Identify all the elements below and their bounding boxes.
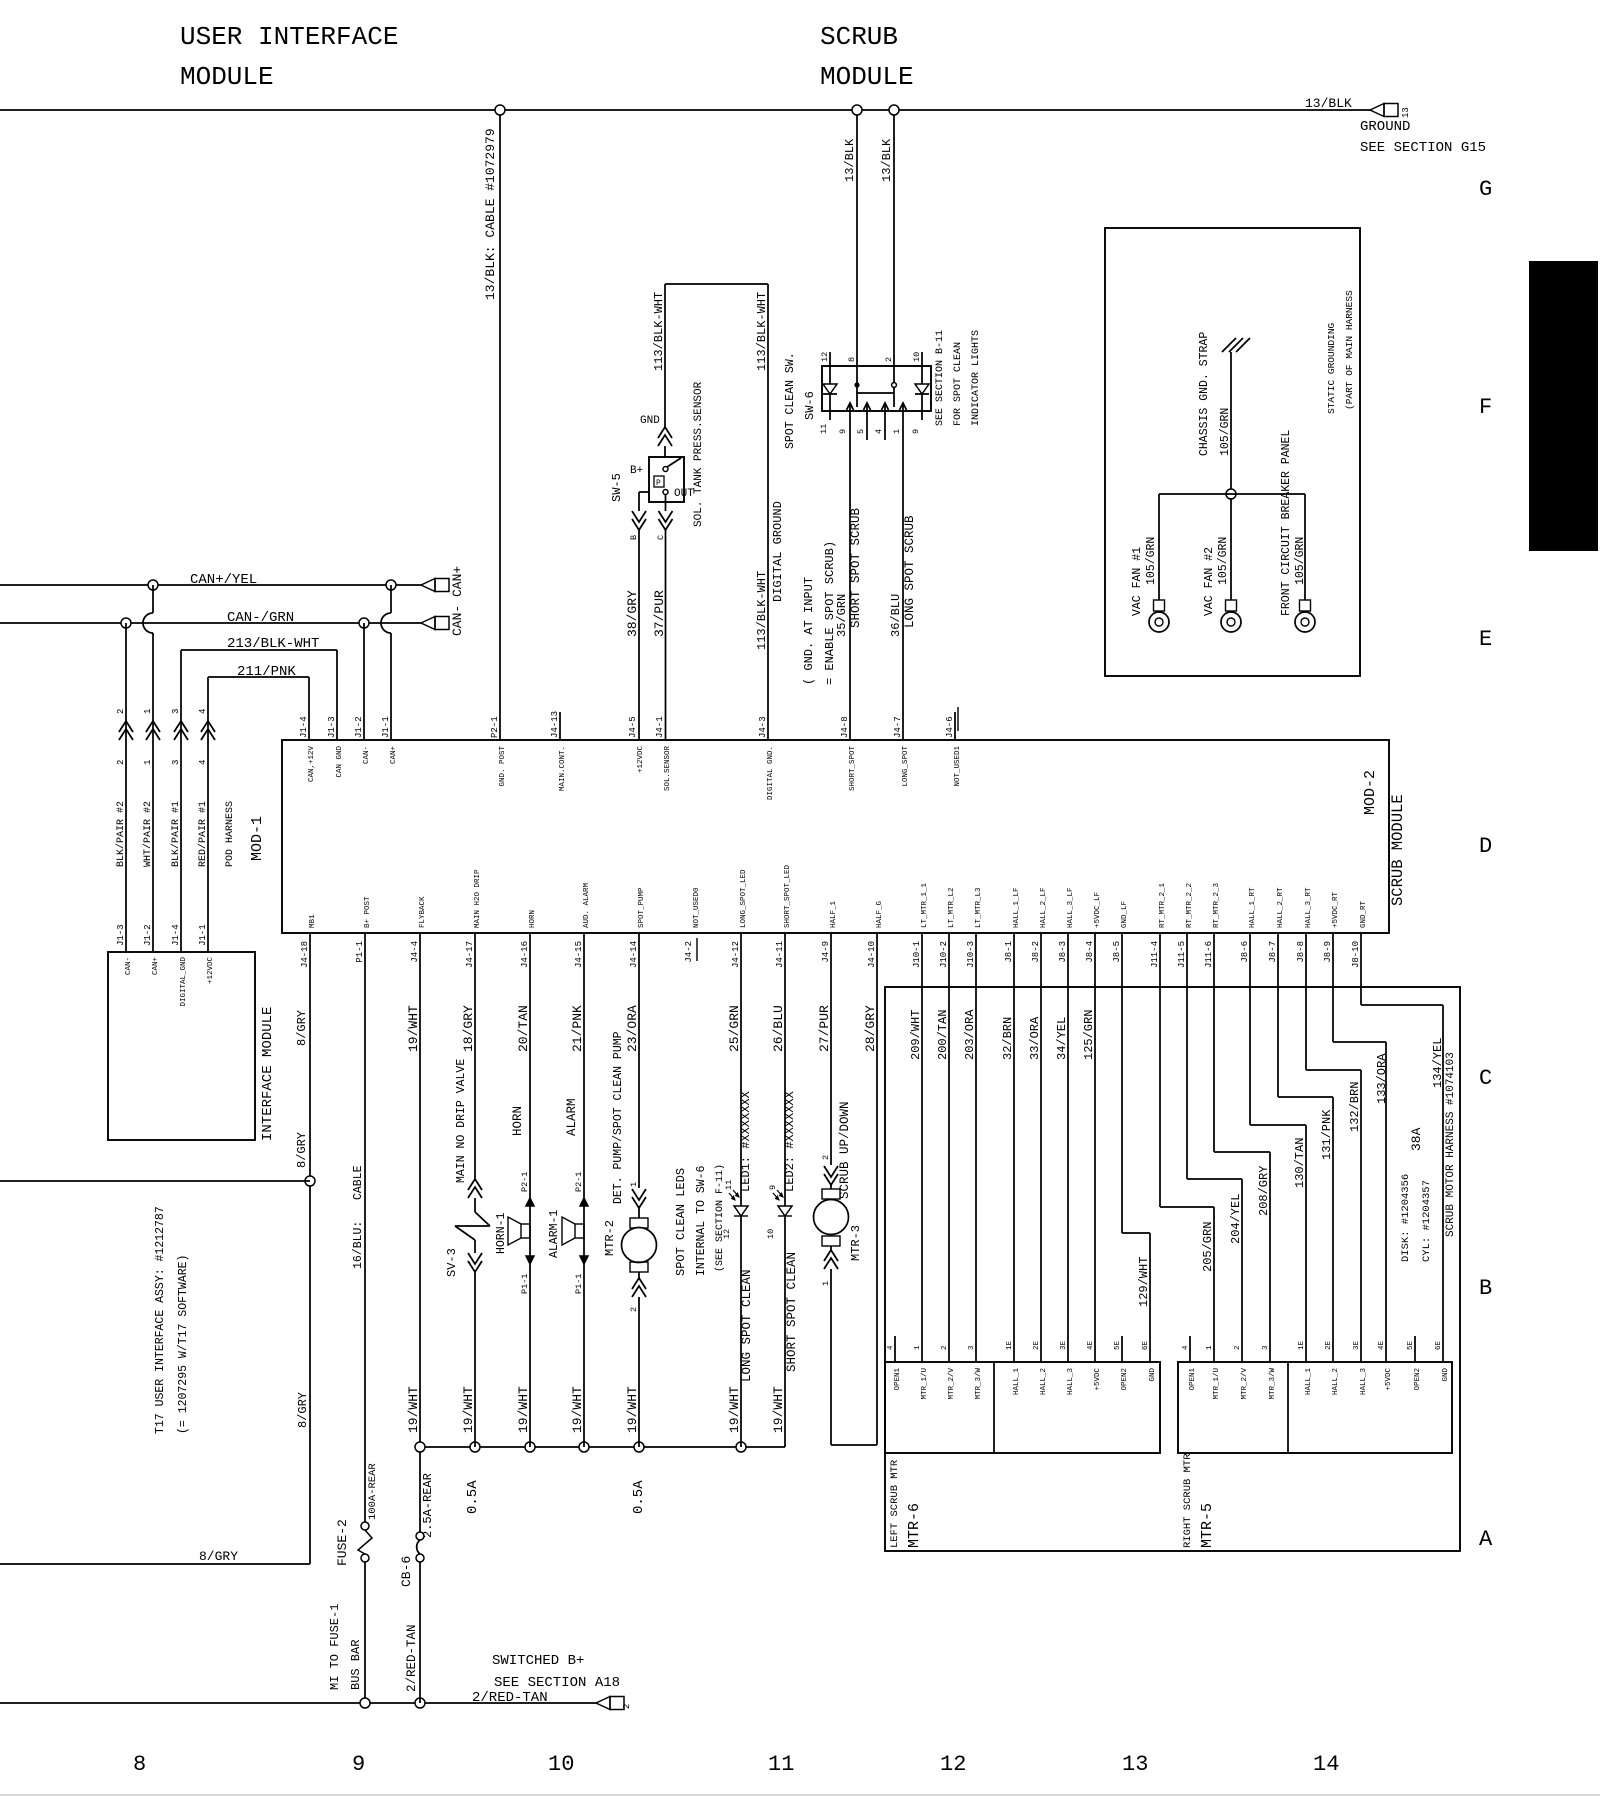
- svg-text:2/RED-TAN: 2/RED-TAN: [405, 1624, 419, 1692]
- svg-text:113/BLK-WHT: 113/BLK-WHT: [755, 292, 769, 371]
- svg-text:SPOT_PUMP: SPOT_PUMP: [638, 887, 646, 928]
- svg-text:8/GRY: 8/GRY: [296, 1392, 310, 1428]
- svg-text:37/PUR: 37/PUR: [652, 590, 667, 637]
- svg-text:2/RED-TAN: 2/RED-TAN: [472, 1690, 548, 1706]
- svg-text:MTR-5: MTR-5: [1199, 1503, 1216, 1548]
- svg-text:SW-6: SW-6: [803, 391, 817, 420]
- svg-text:2: 2: [622, 1704, 632, 1709]
- svg-text:J8-3: J8-3: [1058, 941, 1068, 963]
- svg-text:J1-1: J1-1: [198, 924, 208, 946]
- svg-text:J8-6: J8-6: [1240, 941, 1250, 963]
- svg-text:J1-3: J1-3: [116, 924, 126, 946]
- svg-text:5: 5: [856, 429, 866, 434]
- svg-text:205/GRN: 205/GRN: [1201, 1222, 1215, 1272]
- svg-text:J4-6: J4-6: [945, 716, 955, 738]
- svg-text:J8-1: J8-1: [1004, 941, 1014, 963]
- svg-text:34/YEL: 34/YEL: [1055, 1017, 1069, 1060]
- svg-text:MODULE: MODULE: [820, 62, 914, 92]
- svg-text:LT_MTR_1_1: LT_MTR_1_1: [921, 882, 929, 928]
- svg-text:13: 13: [1401, 107, 1411, 118]
- svg-text:INTERNAL TO SW-6: INTERNAL TO SW-6: [695, 1165, 708, 1276]
- svg-text:130/TAN: 130/TAN: [1293, 1138, 1307, 1188]
- svg-text:LONG_SPOT_LED: LONG_SPOT_LED: [740, 869, 748, 928]
- svg-text:DET. PUMP/SPOT CLEAN PUMP: DET. PUMP/SPOT CLEAN PUMP: [612, 1031, 625, 1204]
- svg-text:19/WHT: 19/WHT: [406, 1005, 421, 1052]
- svg-text:0.5A: 0.5A: [465, 1480, 481, 1514]
- svg-text:CAN-/GRN: CAN-/GRN: [227, 610, 294, 626]
- svg-text:J1-4: J1-4: [299, 716, 309, 738]
- svg-text:DIGITAL GND.: DIGITAL GND.: [767, 746, 775, 800]
- svg-text:131/PNK: 131/PNK: [1320, 1109, 1334, 1160]
- svg-text:MAIN.CONT.: MAIN.CONT.: [559, 746, 567, 791]
- svg-text:P1-1: P1-1: [355, 941, 365, 963]
- svg-text:NOT_USED0: NOT_USED0: [693, 887, 701, 928]
- svg-text:28/GRY: 28/GRY: [863, 1005, 878, 1052]
- svg-text:FRONT CIRCUIT BREAKER PANEL: FRONT CIRCUIT BREAKER PANEL: [1280, 430, 1293, 616]
- svg-text:9: 9: [838, 429, 848, 434]
- svg-text:DIGITAL_GND: DIGITAL_GND: [180, 957, 188, 1007]
- svg-text:HALL_2: HALL_2: [1040, 1368, 1048, 1395]
- svg-text:LONG SPOT CLEAN: LONG SPOT CLEAN: [740, 1269, 754, 1382]
- svg-text:13/BLK: 13/BLK: [880, 138, 894, 182]
- svg-text:J8-8: J8-8: [1296, 941, 1306, 963]
- svg-text:105/GRN: 105/GRN: [1219, 408, 1232, 456]
- svg-text:+12VDC: +12VDC: [207, 957, 215, 985]
- svg-text:(SEE SECTION F-11): (SEE SECTION F-11): [714, 1164, 726, 1272]
- svg-text:MTR_3/W: MTR_3/W: [1269, 1368, 1277, 1400]
- svg-text:113/BLK-WHT: 113/BLK-WHT: [652, 292, 666, 371]
- svg-text:SPOT CLEAN LEDS: SPOT CLEAN LEDS: [674, 1168, 688, 1276]
- svg-text:MTR_1/U: MTR_1/U: [1213, 1368, 1221, 1400]
- svg-text:NOT_USED1: NOT_USED1: [954, 746, 962, 787]
- svg-text:HALL_3_LF: HALL_3_LF: [1067, 887, 1075, 928]
- svg-text:J4-9: J4-9: [821, 941, 831, 963]
- svg-text:FOR SPOT CLEAN: FOR SPOT CLEAN: [953, 342, 964, 426]
- svg-text:MAIN NO DRIP VALVE: MAIN NO DRIP VALVE: [455, 1059, 468, 1183]
- svg-text:3: 3: [171, 760, 181, 765]
- svg-text:GROUND: GROUND: [1360, 119, 1410, 135]
- svg-text:J10-2: J10-2: [939, 941, 949, 968]
- svg-text:J10-3: J10-3: [966, 941, 976, 968]
- svg-text:SPOT CLEAN SW.: SPOT CLEAN SW.: [784, 352, 797, 449]
- svg-text:CAN-: CAN-: [363, 746, 371, 764]
- svg-text:J1-1: J1-1: [381, 716, 391, 738]
- svg-text:ALARM: ALARM: [565, 1098, 579, 1136]
- svg-text:BLK/PAIR #1: BLK/PAIR #1: [170, 801, 182, 867]
- svg-text:6E: 6E: [1142, 1340, 1150, 1350]
- svg-text:+5VDC_RT: +5VDC_RT: [1332, 891, 1340, 928]
- svg-text:125/GRN: 125/GRN: [1082, 1010, 1096, 1060]
- svg-text:SHORT SPOT SCRUB: SHORT SPOT SCRUB: [849, 507, 863, 628]
- svg-text:J4-16: J4-16: [520, 941, 530, 968]
- svg-text:MOD-1: MOD-1: [249, 816, 266, 861]
- svg-text:OUT: OUT: [674, 488, 694, 500]
- svg-text:19/WHT: 19/WHT: [727, 1386, 742, 1433]
- svg-text:SCRUB MODULE: SCRUB MODULE: [1389, 794, 1407, 906]
- svg-text:P2-1: P2-1: [490, 716, 500, 738]
- svg-text:HALL_2_LF: HALL_2_LF: [1040, 887, 1048, 928]
- svg-text:CAN-: CAN-: [450, 605, 465, 636]
- svg-text:1: 1: [1206, 1345, 1214, 1350]
- svg-text:SHORT_SPOT_LED: SHORT_SPOT_LED: [784, 864, 792, 928]
- svg-text:B+: B+: [630, 465, 643, 477]
- svg-text:1: 1: [892, 429, 902, 434]
- svg-text:AUD. ALARM: AUD. ALARM: [583, 882, 591, 928]
- svg-text:J4-3: J4-3: [758, 716, 768, 738]
- svg-text:+5VDC_LF: +5VDC_LF: [1094, 892, 1102, 928]
- svg-text:J11-4: J11-4: [1150, 941, 1160, 968]
- svg-text:J4-4: J4-4: [410, 941, 420, 963]
- svg-text:CAN+: CAN+: [390, 746, 398, 765]
- svg-text:12: 12: [940, 1752, 966, 1777]
- svg-text:DISK: #1204356: DISK: #1204356: [1400, 1174, 1412, 1262]
- svg-text:GND: GND: [1149, 1368, 1157, 1382]
- svg-text:4: 4: [887, 1345, 895, 1350]
- svg-text:133/ORA: 133/ORA: [1375, 1053, 1389, 1104]
- svg-text:LED1: #XXXXXXX: LED1: #XXXXXXX: [739, 1091, 753, 1192]
- svg-text:4: 4: [198, 760, 208, 765]
- svg-text:1: 1: [914, 1345, 922, 1350]
- svg-text:SHORT SPOT CLEAN: SHORT SPOT CLEAN: [785, 1252, 799, 1372]
- svg-text:P2-1: P2-1: [520, 1172, 530, 1192]
- svg-text:J4-10: J4-10: [867, 941, 877, 968]
- svg-text:105/GRN: 105/GRN: [1294, 537, 1307, 585]
- svg-text:(= 1207295 W/T17 SOFTWARE): (= 1207295 W/T17 SOFTWARE): [177, 1255, 190, 1434]
- svg-text:13/BLK: 13/BLK: [1305, 96, 1352, 111]
- svg-text:18/GRY: 18/GRY: [461, 1005, 476, 1052]
- svg-text:LEFT SCRUB MTR: LEFT SCRUB MTR: [889, 1459, 901, 1548]
- svg-text:BLK/PAIR #2: BLK/PAIR #2: [115, 801, 127, 867]
- svg-text:4E: 4E: [1378, 1340, 1386, 1350]
- svg-text:P1-1: P1-1: [520, 1274, 530, 1294]
- svg-text:P: P: [656, 479, 661, 488]
- svg-text:J4-5: J4-5: [628, 716, 638, 738]
- svg-text:21/PNK: 21/PNK: [570, 1005, 585, 1052]
- svg-text:J4-15: J4-15: [574, 941, 584, 968]
- svg-text:27/PUR: 27/PUR: [817, 1005, 832, 1052]
- svg-text:SCRUB UP/DOWN: SCRUB UP/DOWN: [838, 1101, 852, 1199]
- svg-text:FLYBACK: FLYBACK: [419, 896, 427, 928]
- svg-text:MOD-2: MOD-2: [1362, 770, 1379, 815]
- svg-text:208/GRY: 208/GRY: [1257, 1166, 1271, 1216]
- svg-text:4E: 4E: [1087, 1340, 1095, 1350]
- svg-text:2.5A-REAR: 2.5A-REAR: [421, 1473, 435, 1538]
- svg-text:13/BLK: 13/BLK: [843, 138, 857, 182]
- svg-text:2: 2: [941, 1345, 949, 1350]
- svg-text:26/BLU: 26/BLU: [771, 1005, 786, 1052]
- svg-text:SEE SECTION B-11: SEE SECTION B-11: [935, 330, 946, 426]
- svg-text:HALF_1: HALF_1: [830, 900, 838, 928]
- svg-text:0.5A: 0.5A: [631, 1480, 647, 1514]
- svg-text:RT_MTR_2_2: RT_MTR_2_2: [1186, 883, 1194, 928]
- svg-text:HALL_1: HALL_1: [1305, 1368, 1313, 1396]
- svg-text:HORN: HORN: [529, 910, 537, 928]
- svg-text:11: 11: [819, 424, 829, 434]
- svg-text:OPEN2: OPEN2: [1121, 1368, 1129, 1391]
- svg-text:10: 10: [766, 1229, 776, 1239]
- svg-text:MTR_1/U: MTR_1/U: [921, 1368, 929, 1400]
- svg-text:5E: 5E: [1407, 1340, 1415, 1350]
- svg-text:WHT/PAIR #2: WHT/PAIR #2: [142, 801, 154, 867]
- svg-text:4: 4: [1182, 1345, 1190, 1350]
- svg-text:SW-5: SW-5: [610, 473, 624, 502]
- svg-text:1: 1: [143, 760, 153, 765]
- svg-text:VAC FAN #1: VAC FAN #1: [1131, 547, 1144, 616]
- svg-text:CABLE: CABLE: [352, 1165, 365, 1200]
- svg-text:J4-2: J4-2: [684, 941, 694, 963]
- svg-text:FUSE-2: FUSE-2: [335, 1519, 350, 1566]
- svg-text:RED/PAIR #1: RED/PAIR #1: [197, 801, 209, 867]
- svg-text:SCRUB: SCRUB: [820, 22, 898, 52]
- svg-text:20/TAN: 20/TAN: [516, 1005, 531, 1052]
- svg-text:G: G: [1479, 177, 1492, 202]
- svg-text:J8-9: J8-9: [1323, 941, 1333, 963]
- svg-text:E: E: [1479, 627, 1492, 652]
- svg-text:RT_MTR_2_1: RT_MTR_2_1: [1159, 882, 1167, 928]
- svg-text:1: 1: [821, 1281, 831, 1286]
- svg-text:GND: GND: [1442, 1368, 1450, 1382]
- svg-text:CAN,+12V: CAN,+12V: [308, 746, 316, 783]
- svg-text:CAN+/YEL: CAN+/YEL: [190, 572, 257, 588]
- svg-text:132/BRN: 132/BRN: [1348, 1082, 1362, 1132]
- svg-text:P2-1: P2-1: [574, 1172, 584, 1192]
- svg-text:16/BLU:: 16/BLU:: [352, 1221, 365, 1269]
- svg-text:J4-12: J4-12: [731, 941, 741, 968]
- svg-text:D: D: [1479, 834, 1492, 859]
- svg-text:RT_MTR_2_3: RT_MTR_2_3: [1213, 882, 1221, 928]
- svg-text:100A-REAR: 100A-REAR: [367, 1463, 379, 1520]
- svg-text:38A: 38A: [1409, 1127, 1424, 1151]
- svg-text:MTR_2/V: MTR_2/V: [1241, 1368, 1249, 1400]
- svg-text:MODULE: MODULE: [180, 62, 274, 92]
- svg-text:CAN-: CAN-: [125, 957, 133, 975]
- svg-text:4: 4: [198, 709, 208, 714]
- svg-text:J4-13: J4-13: [550, 711, 560, 738]
- svg-text:GND_RT: GND_RT: [1360, 900, 1368, 928]
- svg-text:HALL_3: HALL_3: [1067, 1368, 1075, 1396]
- svg-text:134/YEL: 134/YEL: [1431, 1038, 1445, 1088]
- svg-text:RIGHT SCRUB MTR: RIGHT SCRUB MTR: [1182, 1453, 1194, 1548]
- svg-text:3E: 3E: [1353, 1340, 1361, 1350]
- svg-text:32/BRN: 32/BRN: [1001, 1017, 1015, 1060]
- svg-text:9: 9: [768, 1185, 778, 1190]
- svg-text:2: 2: [629, 1307, 639, 1312]
- svg-text:C: C: [656, 535, 666, 540]
- svg-text:CAN+: CAN+: [450, 566, 465, 597]
- svg-text:B: B: [629, 535, 639, 540]
- svg-text:19/WHT: 19/WHT: [570, 1386, 585, 1433]
- svg-text:GND: GND: [640, 415, 660, 427]
- svg-text:J4-7: J4-7: [893, 716, 903, 738]
- svg-text:J4-8: J4-8: [840, 716, 850, 738]
- svg-text:INTERFACE MODULE: INTERFACE MODULE: [260, 1007, 276, 1141]
- svg-text:HALL_2: HALL_2: [1332, 1368, 1340, 1395]
- svg-text:11: 11: [768, 1752, 794, 1777]
- svg-text:J1-3: J1-3: [327, 716, 337, 738]
- svg-text:19/WHT: 19/WHT: [406, 1386, 421, 1433]
- svg-text:MB1: MB1: [309, 914, 317, 928]
- svg-text:J10-1: J10-1: [912, 941, 922, 968]
- svg-text:DIGITAL GROUND: DIGITAL GROUND: [771, 501, 785, 602]
- svg-text:1E: 1E: [1298, 1340, 1306, 1350]
- svg-text:J4-11: J4-11: [775, 941, 785, 968]
- svg-text:CAN GND: CAN GND: [336, 746, 344, 778]
- svg-text:2: 2: [1234, 1345, 1242, 1350]
- svg-text:10: 10: [548, 1752, 574, 1777]
- svg-text:HALL_3_RT: HALL_3_RT: [1305, 887, 1313, 928]
- svg-text:1E: 1E: [1006, 1340, 1014, 1350]
- svg-text:SHORT_SPOT: SHORT_SPOT: [849, 746, 857, 792]
- svg-text:8: 8: [133, 1752, 146, 1777]
- svg-text:HORN: HORN: [511, 1106, 525, 1136]
- svg-text:MI TO FUSE-1: MI TO FUSE-1: [328, 1604, 342, 1690]
- svg-text:J8-10: J8-10: [1351, 941, 1361, 968]
- svg-text:HALF_G: HALF_G: [876, 900, 884, 928]
- svg-text:36/BLU: 36/BLU: [889, 594, 903, 637]
- svg-text:A: A: [1479, 1527, 1493, 1552]
- svg-text:P1-1: P1-1: [574, 1274, 584, 1294]
- svg-text:MTR_3/W: MTR_3/W: [975, 1368, 983, 1400]
- svg-text:GND. POST: GND. POST: [499, 746, 507, 787]
- svg-text:OPEN2: OPEN2: [1414, 1368, 1422, 1391]
- svg-text:LED2: #XXXXXXX: LED2: #XXXXXXX: [783, 1091, 797, 1192]
- svg-text:HALL_1_RT: HALL_1_RT: [1249, 887, 1257, 928]
- svg-text:GND_LF: GND_LF: [1121, 901, 1129, 928]
- svg-text:3E: 3E: [1060, 1340, 1068, 1350]
- svg-text:( GND. AT INPUT: ( GND. AT INPUT: [802, 577, 816, 685]
- svg-text:13/BLK: CABLE #1072979: 13/BLK: CABLE #1072979: [483, 128, 498, 300]
- svg-text:33/ORA: 33/ORA: [1028, 1016, 1042, 1060]
- svg-text:105/GRN: 105/GRN: [1145, 537, 1158, 585]
- svg-text:105/GRN: 105/GRN: [1217, 537, 1230, 585]
- svg-text:LONG_SPOT: LONG_SPOT: [902, 746, 910, 787]
- svg-text:35/GRN: 35/GRN: [835, 594, 849, 637]
- svg-text:3: 3: [968, 1345, 976, 1350]
- svg-text:2E: 2E: [1033, 1340, 1041, 1350]
- svg-text:38/GRY: 38/GRY: [625, 590, 640, 637]
- svg-text:SV-3: SV-3: [445, 1248, 459, 1277]
- svg-text:J4-1: J4-1: [655, 716, 665, 738]
- svg-text:MAIN H2O DRIP: MAIN H2O DRIP: [474, 869, 482, 928]
- svg-text:J1-2: J1-2: [143, 924, 153, 946]
- svg-text:19/WHT: 19/WHT: [516, 1386, 531, 1433]
- svg-text:113/BLK-WHT: 113/BLK-WHT: [755, 571, 769, 650]
- svg-text:CAN+: CAN+: [152, 957, 160, 976]
- svg-text:19/WHT: 19/WHT: [625, 1386, 640, 1433]
- svg-text:B+ POST: B+ POST: [364, 896, 372, 928]
- svg-text:SEE SECTION G15: SEE SECTION G15: [1360, 140, 1486, 156]
- svg-text:19/WHT: 19/WHT: [461, 1386, 476, 1433]
- svg-text:129/WHT: 129/WHT: [1137, 1257, 1151, 1307]
- svg-text:J1-4: J1-4: [171, 924, 181, 946]
- svg-text:5E: 5E: [1114, 1340, 1122, 1350]
- svg-text:HORN-1: HORN-1: [495, 1212, 508, 1254]
- svg-text:2: 2: [116, 760, 126, 765]
- svg-text:STATIC GROUNDING: STATIC GROUNDING: [1326, 322, 1337, 414]
- svg-text:10: 10: [912, 352, 922, 362]
- svg-text:J4-18: J4-18: [300, 941, 310, 968]
- svg-text:J8-7: J8-7: [1268, 941, 1278, 963]
- svg-text:J1-2: J1-2: [354, 716, 364, 738]
- svg-text:HALL_3: HALL_3: [1360, 1368, 1368, 1396]
- svg-text:200/TAN: 200/TAN: [936, 1010, 950, 1060]
- svg-text:SEE SECTION A18: SEE SECTION A18: [494, 1675, 620, 1691]
- svg-text:SOL.SENSOR: SOL.SENSOR: [664, 746, 672, 792]
- svg-text:2E: 2E: [1325, 1340, 1333, 1350]
- svg-text:OPEN1: OPEN1: [894, 1368, 902, 1391]
- svg-text:POD HARNESS: POD HARNESS: [225, 801, 236, 867]
- svg-text:8/GRY: 8/GRY: [295, 1010, 309, 1046]
- svg-text:8/GRY: 8/GRY: [199, 1549, 238, 1564]
- svg-text:1: 1: [143, 709, 153, 714]
- svg-text:+12VDC: +12VDC: [637, 746, 645, 774]
- svg-text:C: C: [1479, 1066, 1492, 1091]
- svg-text:MTR-3: MTR-3: [849, 1225, 863, 1261]
- svg-text:2: 2: [116, 709, 126, 714]
- svg-text:SCRUB MOTOR HARNESS #1074103: SCRUB MOTOR HARNESS #1074103: [1445, 1052, 1457, 1237]
- svg-text:LT_MTR_L2: LT_MTR_L2: [948, 887, 956, 928]
- svg-text:8/GRY: 8/GRY: [295, 1132, 309, 1168]
- svg-text:2: 2: [821, 1155, 831, 1160]
- svg-text:LT_MTR_L3: LT_MTR_L3: [975, 887, 983, 928]
- svg-text:9: 9: [911, 429, 921, 434]
- svg-text:3: 3: [1262, 1345, 1270, 1350]
- svg-text:204/YEL: 204/YEL: [1229, 1194, 1243, 1244]
- svg-text:4: 4: [874, 429, 884, 434]
- svg-text:209/WHT: 209/WHT: [909, 1010, 923, 1060]
- svg-text:1: 1: [629, 1182, 639, 1187]
- svg-text:B: B: [1479, 1276, 1492, 1301]
- svg-text:SWITCHED B+: SWITCHED B+: [492, 1653, 584, 1669]
- svg-text:ALARM-1: ALARM-1: [548, 1210, 561, 1258]
- svg-text:MTR_2/V: MTR_2/V: [948, 1368, 956, 1400]
- svg-text:HALL_1_LF: HALL_1_LF: [1013, 887, 1021, 928]
- svg-text:T17 USER INTERFACE ASSY: #1212: T17 USER INTERFACE ASSY: #1212787: [154, 1206, 167, 1434]
- svg-text:J8-4: J8-4: [1085, 941, 1095, 963]
- svg-text:(PART OF MAIN HARNESS: (PART OF MAIN HARNESS: [1344, 290, 1355, 410]
- svg-text:13: 13: [1122, 1752, 1148, 1777]
- svg-text:J11-6: J11-6: [1204, 941, 1214, 968]
- svg-text:J8-5: J8-5: [1112, 941, 1122, 963]
- svg-text:J11-5: J11-5: [1177, 941, 1187, 968]
- svg-text:HALL_2_RT: HALL_2_RT: [1277, 887, 1285, 928]
- svg-text:CYL: #1204357: CYL: #1204357: [1421, 1180, 1433, 1262]
- svg-text:2: 2: [884, 357, 894, 362]
- svg-text:203/ORA: 203/ORA: [963, 1009, 977, 1060]
- svg-text:6E: 6E: [1435, 1340, 1443, 1350]
- svg-text:25/GRN: 25/GRN: [727, 1005, 742, 1052]
- svg-text:HALL_1: HALL_1: [1013, 1368, 1021, 1396]
- svg-text:J4-17: J4-17: [465, 941, 475, 968]
- svg-text:CB-6: CB-6: [399, 1556, 414, 1587]
- svg-text:J4-14: J4-14: [629, 941, 639, 968]
- svg-text:+5VDC: +5VDC: [1385, 1368, 1393, 1391]
- svg-text:VAC FAN #2: VAC FAN #2: [1203, 547, 1216, 616]
- svg-text:8: 8: [847, 357, 857, 362]
- svg-text:MTR-2: MTR-2: [603, 1220, 617, 1256]
- svg-text:MTR-6: MTR-6: [906, 1503, 923, 1548]
- svg-text:12: 12: [820, 352, 830, 362]
- svg-text:14: 14: [1313, 1752, 1339, 1777]
- svg-text:USER INTERFACE: USER INTERFACE: [180, 22, 398, 52]
- svg-text:F: F: [1479, 395, 1492, 420]
- svg-text:INDICATOR LIGHTS: INDICATOR LIGHTS: [971, 330, 982, 426]
- svg-text:23/ORA: 23/ORA: [625, 1005, 640, 1052]
- svg-text:3: 3: [171, 709, 181, 714]
- svg-text:9: 9: [352, 1752, 365, 1777]
- svg-text:CHASSIS GND. STRAP: CHASSIS GND. STRAP: [1198, 332, 1211, 456]
- svg-text:SOL. TANK PRESS.SENSOR: SOL. TANK PRESS.SENSOR: [693, 381, 705, 527]
